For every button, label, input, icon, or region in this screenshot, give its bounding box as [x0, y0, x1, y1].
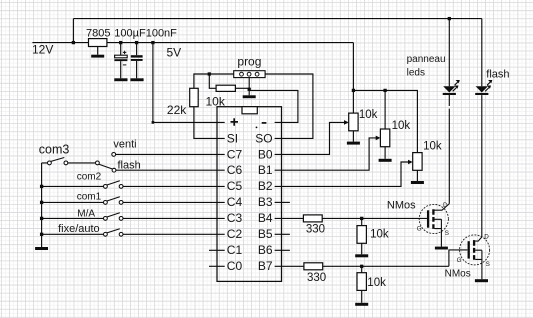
wire rail corner to LED2 — [481, 19, 483, 87]
svg-text:NMos: NMos — [387, 199, 416, 211]
svg-text:12V: 12V — [32, 43, 53, 57]
wire 100uF bottom to ground — [120, 61, 122, 78]
connector prog — [234, 71, 265, 78]
node pots rail junction 1 — [352, 89, 355, 92]
wire 10k pulldown1 top — [361, 218, 363, 225]
wire 100nF top — [136, 43, 138, 56]
wire com1 row to C4 — [42, 201, 225, 203]
wire B2 to pot3 wiper — [275, 162, 409, 186]
potentiometer 10k P2 — [376, 129, 390, 147]
regulator 7805 U2 — [89, 39, 107, 47]
wire 100uF top — [120, 43, 122, 56]
svg-text:22k: 22k — [167, 103, 187, 117]
svg-text:C5: C5 — [227, 179, 243, 193]
IC plus symbol — [231, 118, 239, 126]
ground bar pulldown1 — [355, 254, 368, 257]
svg-text:B3: B3 — [258, 195, 273, 209]
wire 12V input — [32, 42, 88, 44]
pin stub C1 — [209, 249, 225, 251]
svg-text:B2: B2 — [258, 179, 273, 193]
svg-text:C0: C0 — [227, 259, 243, 273]
ground bar NMos2 — [475, 279, 488, 282]
svg-text:fixe/auto: fixe/auto — [58, 223, 100, 235]
svg-text:B6: B6 — [258, 243, 273, 257]
node 10k pulldown2 junction — [360, 265, 363, 268]
IC notch — [242, 107, 257, 114]
resistor 10k pulldown2 — [357, 273, 366, 291]
wire switch bus vertical — [41, 163, 43, 247]
wire 7805 ground pin — [97, 47, 99, 55]
ground bar pulldown2 — [355, 303, 368, 306]
LED D1 panneau — [443, 80, 460, 95]
LED D2 flash — [475, 80, 492, 95]
wire pot2 top — [384, 90, 386, 129]
svg-text:C6: C6 — [227, 163, 243, 177]
svg-text:D: D — [484, 234, 489, 241]
wire 5V to pots rail — [352, 43, 354, 91]
svg-text:C3: C3 — [227, 211, 243, 225]
ground bar pot3 — [411, 181, 424, 184]
svg-text:C2: C2 — [227, 227, 243, 241]
node pots rail junction 2 — [383, 89, 386, 92]
ground bar 100uF — [114, 78, 127, 81]
wire riser to top rail — [72, 19, 74, 43]
svg-text:B4: B4 — [258, 211, 273, 225]
wire 22k top to prog — [194, 74, 234, 88]
svg-text:10k: 10k — [359, 109, 378, 121]
IC dot mark — [256, 127, 258, 129]
ground bar 7805 — [91, 55, 104, 58]
potentiometer 10k P1 — [344, 113, 358, 131]
wire M/A row to C3 — [42, 217, 225, 219]
node bus com1 junction — [40, 201, 43, 204]
svg-text:flash: flash — [486, 69, 509, 81]
svg-text:B1: B1 — [258, 163, 273, 177]
wire pot1 top — [352, 90, 354, 113]
svg-text:leds: leds — [407, 67, 425, 78]
svg-text:C4: C4 — [227, 195, 243, 209]
svg-text:SI: SI — [227, 131, 238, 145]
ground bar 100nF — [130, 78, 143, 81]
svg-text:NMos: NMos — [445, 268, 471, 279]
svg-text:10k: 10k — [367, 277, 386, 289]
wire B7 row to 330 — [275, 265, 304, 267]
node prog left junction — [208, 72, 211, 75]
plus marker 100uF — [123, 51, 126, 54]
pin stub C0 — [209, 265, 225, 267]
node bus M/A junction — [40, 217, 43, 220]
switch throw flash — [112, 168, 116, 172]
svg-text:S: S — [486, 261, 490, 268]
svg-text:com2: com2 — [77, 171, 102, 182]
wire 5V output rail — [107, 42, 354, 44]
wire B4 row to 330 — [275, 217, 304, 219]
node bus com2 junction — [40, 185, 43, 188]
svg-text:B5: B5 — [258, 227, 273, 241]
wire pot3 bottom to ground — [416, 170, 418, 181]
svg-text:B0: B0 — [258, 147, 273, 161]
node 5V branch junction — [151, 41, 154, 44]
wire prog right pin to SO — [265, 74, 313, 138]
pin stub B6 — [275, 249, 290, 251]
wire prog center pin to ground — [248, 78, 250, 96]
switch M/A — [104, 213, 124, 221]
wire LED2 to NMos2 drain — [481, 95, 483, 237]
resistor 330 R1 — [303, 215, 322, 222]
resistor 330 R2 — [304, 263, 323, 270]
wire LED1 to NMos1 drain upper — [448, 95, 450, 106]
wire 5V down to IC plus pin — [153, 43, 225, 123]
svg-text:com1: com1 — [77, 191, 102, 202]
svg-text:venti: venti — [113, 139, 136, 151]
ground bar pot1 — [347, 142, 360, 145]
svg-text:330: 330 — [307, 272, 326, 284]
transistor Q2 NMos — [460, 235, 490, 279]
wire fixe/auto row to C2 — [42, 233, 225, 235]
IC minus symbol — [262, 122, 267, 124]
wire flash to C6 — [116, 169, 225, 171]
wire com3 row — [42, 162, 96, 164]
svg-text:SO: SO — [255, 131, 272, 145]
svg-text:panneau: panneau — [407, 54, 446, 65]
svg-text:C1: C1 — [227, 243, 243, 257]
node 100uF junction — [119, 41, 122, 44]
svg-text:D: D — [443, 202, 448, 209]
svg-text:7805: 7805 — [86, 27, 110, 39]
node 10k pulldown1 junction — [360, 217, 363, 220]
ground bar pot2 — [379, 159, 392, 162]
wire 10k right to prog center — [235, 87, 249, 89]
resistor 10k horizontal — [216, 85, 235, 91]
wire rail to LED1 — [448, 19, 450, 87]
switch fixe/auto — [104, 229, 124, 237]
wire B0 to pot1 wiper — [275, 122, 345, 154]
wire 330 to NMos2 gate riser — [323, 265, 449, 267]
transistor Q1 NMos — [419, 204, 449, 247]
svg-text:330: 330 — [306, 224, 325, 236]
wire pot1 bottom to ground — [352, 131, 354, 142]
wire pots top rail — [353, 90, 417, 152]
svg-text:G: G — [417, 225, 422, 232]
wire 10k pulldown2 top — [361, 266, 363, 272]
svg-text:10k: 10k — [392, 120, 411, 132]
svg-text:100µF100nF: 100µF100nF — [114, 27, 177, 39]
svg-text:B7: B7 — [258, 259, 273, 273]
svg-text:prog: prog — [237, 55, 261, 69]
svg-text:10k: 10k — [423, 141, 442, 153]
resistor 22k — [190, 88, 199, 106]
switch com1 — [104, 197, 124, 205]
wire B1 to pot2 wiper — [275, 138, 377, 170]
node bus fixe/auto junction — [40, 233, 43, 236]
minus marker 100uF — [123, 64, 126, 66]
wire LED1 to NMos1 drain lower — [448, 109, 450, 204]
svg-text:5V: 5V — [167, 45, 182, 59]
pin stub B3 — [275, 201, 290, 203]
node 5V corner junction — [152, 121, 155, 124]
svg-text:10k: 10k — [370, 228, 389, 240]
ground bar prog — [243, 95, 256, 98]
switch com2 — [104, 181, 124, 189]
IC U1 box — [217, 107, 282, 282]
pin stub B5 — [275, 233, 290, 235]
capacitor C1 100uF plates — [114, 55, 127, 61]
svg-text:G: G — [457, 257, 462, 264]
wire 22k bottom to SI — [194, 107, 225, 139]
node LED1 rail junction — [448, 17, 451, 20]
wire minus pin to prog ground — [249, 90, 298, 122]
node 100nF junction — [135, 41, 138, 44]
node prog ground junction — [248, 88, 251, 91]
potentiometer 10k P3 — [408, 153, 422, 171]
wire 100nF bottom to ground — [136, 61, 138, 78]
ground bar switch bus — [35, 247, 48, 250]
wire pot2 bottom to ground — [384, 147, 386, 159]
wire top +12V rail — [73, 18, 481, 20]
ground bar NMos1 — [435, 247, 448, 250]
svg-text:C7: C7 — [227, 147, 243, 161]
wire com2 row to C5 — [42, 185, 225, 187]
wire 10k pulldown2 bottom — [361, 290, 363, 302]
svg-text:S: S — [445, 230, 449, 237]
wire branch to 10k left — [209, 74, 216, 88]
resistor 10k pulldown1 — [357, 226, 366, 244]
node 12V rail junction — [72, 41, 75, 44]
svg-text:M/A: M/A — [77, 209, 95, 220]
svg-text:flash: flash — [118, 159, 141, 171]
capacitor C2 100nF plates — [131, 55, 143, 61]
wire 10k pulldown1 bottom — [361, 243, 363, 254]
switch com3 — [48, 158, 113, 169]
wire venti to C7 — [116, 153, 225, 155]
svg-text:10k: 10k — [206, 94, 226, 108]
wire 330 to NMos1 gate — [322, 217, 427, 219]
wire NMos2 gate riser — [449, 250, 468, 266]
svg-text:com3: com3 — [39, 143, 70, 157]
switch throw venti — [112, 153, 116, 157]
